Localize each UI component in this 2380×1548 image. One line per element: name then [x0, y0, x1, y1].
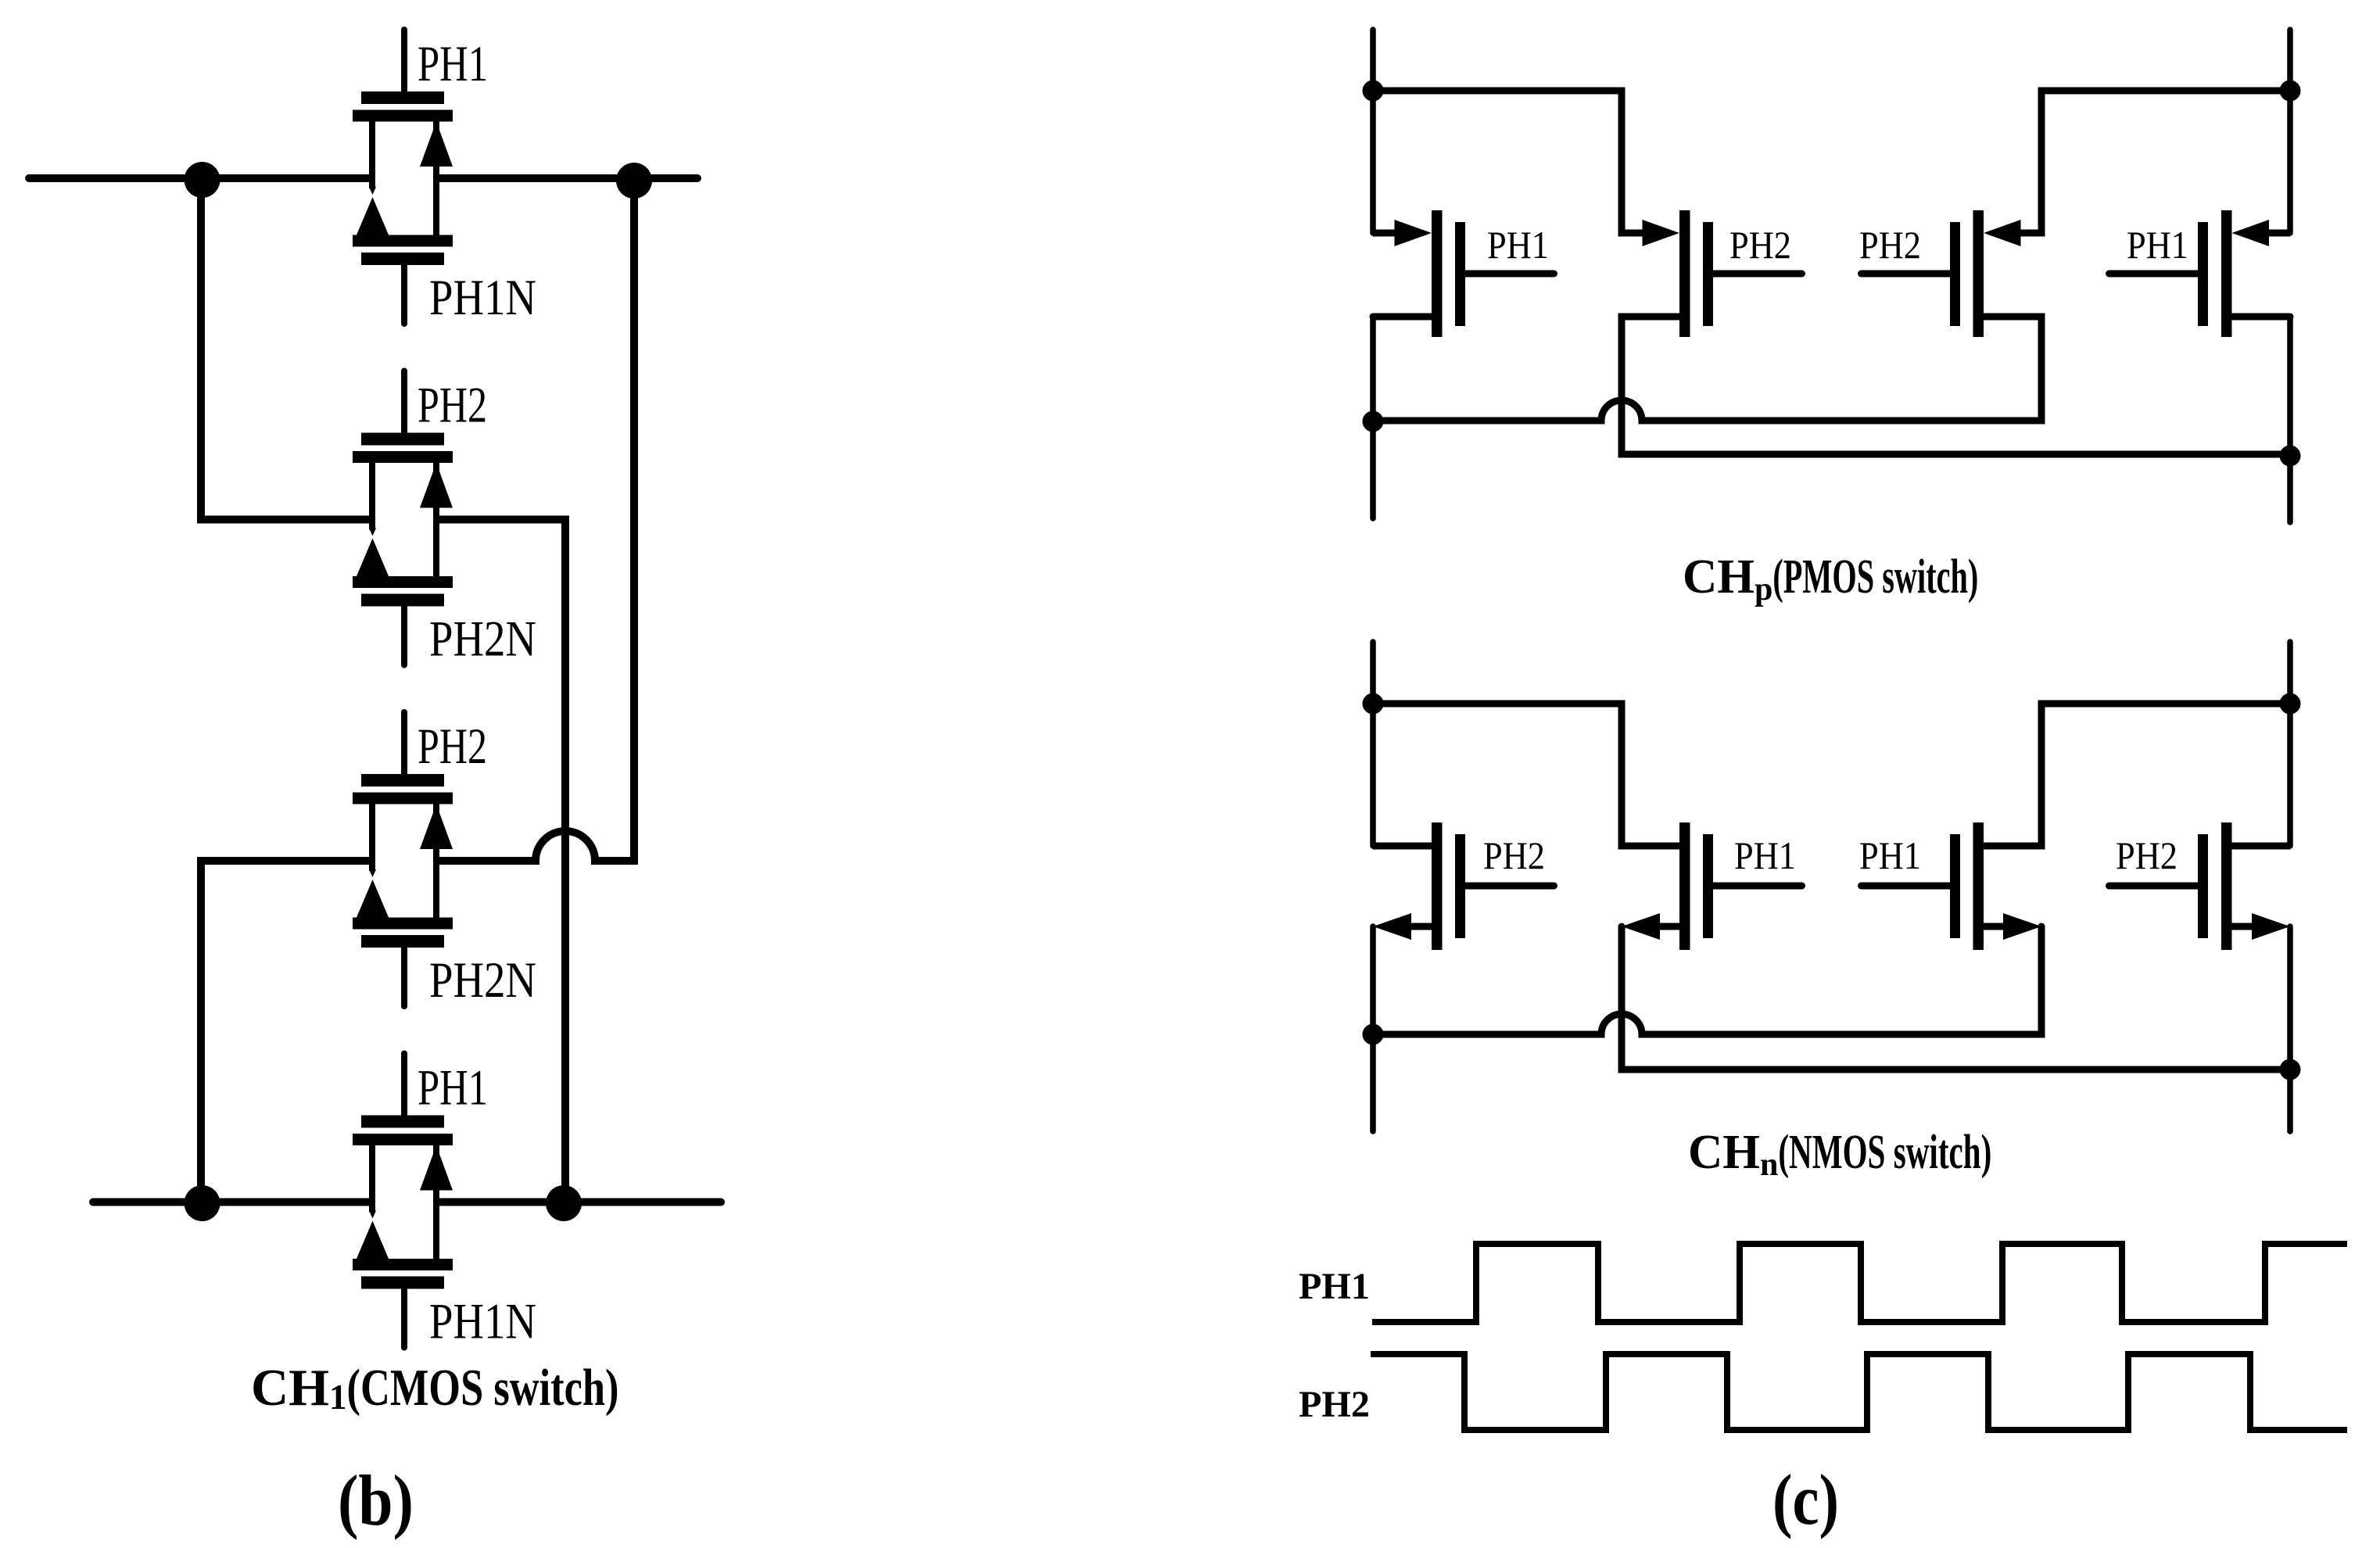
transmission gate TG3 top gate wire — [401, 712, 407, 776]
wire: NMOS right rail upper segment — [2287, 642, 2293, 846]
wire: NMOS right rail lower segment — [2287, 926, 2293, 1131]
junction dot: PMOS left rail top node — [1363, 81, 1384, 102]
svg-text:PH1: PH1 — [1734, 833, 1796, 877]
junction dot: PMOS left rail bottom node — [1363, 411, 1384, 432]
NMOS M7 source arrow — [2003, 913, 2041, 940]
PMOS M1 gate bar — [1455, 222, 1465, 326]
PMOS M2 source stub — [1633, 230, 1648, 237]
transmission gate TG2 top gate wire — [401, 371, 407, 435]
wire: top-left bootstrap wire from left rail down to M6 top terminal — [1373, 704, 1679, 846]
wire: M2 drain down and right to right rail bottom node (line B) — [1622, 317, 2290, 454]
NMOS transistor M7 (PH1) channel bar — [1973, 822, 1984, 950]
junction dot: NMOS left rail bottom node — [1363, 1024, 1384, 1045]
wire: PMOS left rail lower segment — [1370, 317, 1376, 518]
NMOS M5 gate bar — [1455, 834, 1465, 938]
PMOS transistor M1 (PH1) channel bar — [1432, 210, 1443, 337]
transmission gate TG4 PMOS source arrow (upper right, pointing up) — [420, 1145, 453, 1191]
transmission gate TG3 right leg — [433, 804, 439, 921]
NMOS M5 source arrow — [1373, 913, 1411, 940]
transmission gate TG1 left leg (PMOS source/drain) — [369, 119, 375, 188]
PMOS M4 gate bar — [2198, 222, 2208, 326]
wire: M4 source from right rail — [2267, 230, 2290, 237]
junction dot: NMOS left rail top node — [1363, 693, 1384, 715]
transmission gate TG2 left leg (PMOS source/drain) — [369, 460, 375, 530]
transmission gate TG2 PMOS source arrow (upper right, pointing up) — [420, 463, 453, 508]
NMOS M8 source arrow — [2252, 913, 2290, 940]
svg-text:PH2: PH2 — [418, 378, 487, 434]
wire: M8 top terminal from right rail — [2232, 843, 2291, 850]
junction dot: PMOS right rail bottom node — [2280, 446, 2301, 467]
transmission gate TG2 bottom channel bar — [353, 576, 453, 588]
wire: M3 drain down and left to left rail bottom node (line A, hops over M2 drain vertical) — [1373, 317, 2041, 421]
wire: bottom rail left segment (circuit b) — [93, 1199, 371, 1206]
junction dot: bottom rail right node — [546, 1185, 582, 1221]
NMOS M8 gate bar — [2198, 834, 2208, 938]
wire: top rail left segment (circuit b) — [29, 174, 371, 182]
junction dot: PMOS right rail top node — [2280, 81, 2301, 102]
svg-text:PH2N: PH2N — [429, 611, 536, 668]
PMOS M3 source stub — [2015, 230, 2031, 237]
svg-text:CHn(NMOS switch): CHn(NMOS switch) — [1688, 1126, 1991, 1183]
wire: M5 drain to left rail with source arrow pointing left — [1411, 923, 1432, 930]
wire: M1 source from left rail — [1373, 230, 1396, 237]
PMOS transistor M3 (PH2) channel bar — [1973, 210, 1984, 337]
svg-text:PH1: PH1 — [1299, 1266, 1370, 1307]
PMOS M4 gate lead — [2109, 271, 2199, 278]
transmission gate TG4 right leg — [433, 1145, 439, 1262]
NMOS transistor M8 (PH2) channel bar — [2221, 822, 2232, 950]
wire: top-right bootstrap wire from right rail to M3 source — [2020, 91, 2290, 233]
PMOS M4 source stub — [2264, 230, 2279, 237]
PMOS M1 source stub — [1385, 230, 1400, 237]
transmission gate TG1 bottom gate wire — [401, 263, 407, 324]
svg-text:PH1: PH1 — [418, 1060, 488, 1116]
NMOS transistor M6 (PH1) channel bar — [1679, 822, 1690, 950]
transmission gate TG2 NMOS source arrow (lower left, pointing up) — [357, 539, 389, 577]
NMOS M7 gate lead — [1862, 883, 1951, 890]
waveform PH1 (non-overlapping clock phase 1) — [1372, 1244, 2347, 1322]
wire: top-left bootstrap wire from left rail to M2 source — [1373, 91, 1643, 233]
PMOS M2 gate bar — [1703, 222, 1713, 326]
wire: PMOS left rail upper segment — [1370, 30, 1376, 233]
svg-text:PH2: PH2 — [1729, 223, 1791, 267]
PMOS M2 gate lead — [1713, 271, 1802, 278]
wire: M6 drain with arrow, down and right to right rail bottom node (line B) — [1660, 923, 1679, 930]
PMOS transistor M4 (PH1) channel bar — [2221, 210, 2232, 337]
transmission gate TG3 left leg (PMOS source/drain) — [369, 801, 375, 871]
NMOS M6 gate bar — [1703, 834, 1713, 938]
wire: left drop from top-left node down to TG2 left terminal — [201, 178, 369, 520]
wire: right vertical from top rail right node down, then left into TG3 right terminal, hopping over middle vertical — [439, 178, 634, 861]
PMOS M1 gate lead — [1465, 271, 1554, 278]
wire: bottom rail right segment (circuit b) — [438, 1199, 721, 1206]
transmission gate TG4 top channel bar — [353, 1134, 453, 1145]
transmission gate TG1 right leg — [433, 122, 439, 238]
svg-text:PH1: PH1 — [1859, 833, 1921, 877]
junction dot: top rail right node — [616, 163, 652, 199]
svg-text:CH1(CMOS switch): CH1(CMOS switch) — [251, 1359, 619, 1417]
wire: NMOS left rail lower segment — [1370, 926, 1376, 1131]
transmission gate TG3 bottom channel bar — [353, 918, 453, 930]
svg-text:PH1: PH1 — [1487, 223, 1549, 267]
waveform PH2 (non-overlapping clock phase 2) — [1371, 1354, 2347, 1430]
svg-text:PH1N: PH1N — [429, 270, 536, 326]
transmission gate TG1 bottom channel bar — [353, 235, 453, 247]
wire: top rail right segment (circuit b) — [438, 174, 697, 182]
svg-text:PH2: PH2 — [1483, 833, 1545, 877]
transmission gate TG1 NMOS source arrow (lower left, pointing up) — [357, 197, 389, 235]
wire: PMOS right rail upper segment — [2287, 30, 2293, 233]
transmission gate TG2 bottom gate bar — [361, 594, 444, 607]
wire: PMOS right rail lower segment — [2287, 317, 2293, 522]
PMOS transistor M2 (PH2) channel bar — [1679, 210, 1690, 337]
transmission gate TG3 NMOS source arrow (lower left, pointing up) — [357, 880, 389, 918]
junction dot: NMOS right rail top node — [2280, 693, 2301, 715]
transmission gate TG4 bottom channel bar — [353, 1259, 453, 1270]
transmission gate TG4 top gate bar — [361, 1116, 444, 1128]
PMOS M1 source arrow (pointing right into channel) — [1395, 220, 1432, 246]
transmission gate TG4 bottom gate wire — [401, 1287, 407, 1348]
wire: M6 drain vertical down to line B — [1622, 926, 2290, 1070]
junction dot: bottom rail left node — [185, 1185, 220, 1221]
wire: TG3 left terminal to left vertical, down to bottom rail left node — [201, 861, 369, 1202]
transmission gate TG1 bottom gate bar — [361, 253, 444, 265]
transmission gate TG4 NMOS source arrow (lower left, pointing up) — [357, 1221, 389, 1260]
svg-text:(c): (c) — [1772, 1460, 1839, 1539]
transmission gate TG1 top channel bar — [353, 110, 453, 122]
PMOS M3 gate lead — [1862, 271, 1951, 278]
wire: M4 drain back to right rail — [2232, 314, 2291, 321]
wire: M5 top terminal from left rail — [1373, 843, 1432, 850]
transmission gate TG3 top channel bar — [353, 793, 453, 804]
NMOS M6 gate lead — [1713, 883, 1802, 890]
transmission gate TG4 top gate wire — [401, 1054, 407, 1118]
svg-text:PH1: PH1 — [2127, 223, 2188, 267]
transmission gate TG3 PMOS source arrow (upper right, pointing up) — [420, 804, 453, 850]
PMOS M2 source arrow (pointing right into channel) — [1643, 220, 1680, 246]
wire: M8 drain to right rail with source arrow pointing right — [2232, 923, 2253, 930]
transmission gate TG3 bottom gate wire — [401, 945, 407, 1006]
PMOS M3 gate bar — [1950, 222, 1960, 326]
junction dot: top rail left node — [185, 162, 220, 198]
PMOS M3 source arrow (pointing left into channel) — [1984, 220, 2021, 246]
transmission gate TG4 bottom gate bar — [361, 1277, 444, 1289]
NMOS M8 gate lead — [2109, 883, 2199, 890]
transmission gate TG2 top gate bar — [361, 433, 444, 446]
svg-text:PH2: PH2 — [2116, 833, 2177, 877]
transmission gate TG2 top channel bar — [353, 451, 453, 463]
svg-text:PH1: PH1 — [418, 36, 488, 92]
wire: NMOS left rail upper segment — [1370, 642, 1376, 846]
svg-text:PH1N: PH1N — [429, 1294, 536, 1350]
transmission gate TG3 bottom gate bar — [361, 935, 444, 948]
svg-text:PH2N: PH2N — [429, 952, 536, 1009]
NMOS M5 gate lead — [1465, 883, 1554, 890]
transmission gate TG1 PMOS source arrow (upper right, pointing up) — [420, 122, 453, 167]
transmission gate TG1 top gate wire — [401, 30, 407, 94]
transmission gate TG2 right leg — [433, 463, 439, 579]
svg-text:CHp(PMOS switch): CHp(PMOS switch) — [1683, 550, 1978, 607]
svg-text:PH2: PH2 — [1859, 223, 1921, 267]
NMOS M7 gate bar — [1950, 834, 1960, 938]
NMOS M6 source arrow — [1622, 913, 1660, 940]
transmission gate TG3 top gate bar — [361, 774, 444, 787]
transmission gate TG2 bottom gate wire — [401, 604, 407, 665]
junction dot: NMOS right rail bottom node — [2280, 1059, 2301, 1080]
wire: TG2 right terminal to middle vertical, down to bottom rail right node — [439, 520, 565, 1202]
svg-text:PH2: PH2 — [418, 718, 487, 775]
svg-text:(b): (b) — [338, 1460, 414, 1540]
wire: M7 drain vertical down to line A — [1373, 926, 2041, 1034]
wire: M7 drain with arrow, down and left to left rail bottom node (line A, hops over M6 vertical) — [1984, 923, 2003, 930]
transmission gate TG1 top gate bar — [361, 91, 444, 104]
transmission gate TG4 left leg (PMOS source/drain) — [369, 1143, 375, 1213]
wire: M1 drain back to left rail — [1373, 314, 1432, 321]
NMOS transistor M5 (PH2) channel bar — [1432, 822, 1443, 950]
wire: top-right bootstrap wire from right rail down to M7 top terminal — [1984, 704, 2290, 846]
svg-text:PH2: PH2 — [1299, 1384, 1370, 1425]
PMOS M4 source arrow (pointing left into channel) — [2232, 220, 2270, 246]
